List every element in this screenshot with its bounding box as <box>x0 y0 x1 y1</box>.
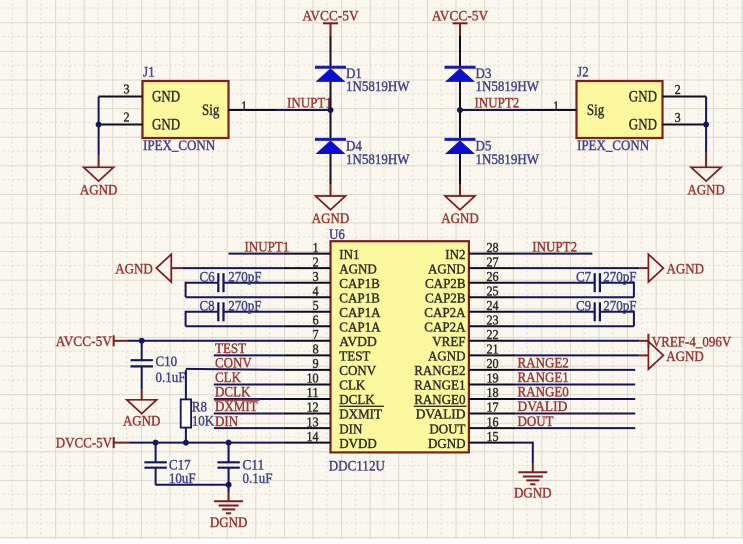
net label RANGE1 <box>518 370 569 386</box>
pin 9 (CONV) of U6 <box>284 357 376 379</box>
pin 2 of J2 <box>663 83 707 98</box>
svg-text:AGND: AGND <box>428 350 466 365</box>
net label RANGE0 <box>518 385 569 401</box>
diode D3 1N5819HW <box>445 67 476 82</box>
wire C8 to U6 pin 6 <box>186 311 284 327</box>
net label DOUT <box>518 414 554 430</box>
pin 11 (DCLK) of U6 <box>284 386 375 408</box>
pin 2 (AGND) of U6 <box>284 255 377 277</box>
net label DVALID <box>518 399 568 415</box>
svg-text:AVCC-5V: AVCC-5V <box>302 9 358 25</box>
power port VREF-4_096V <box>648 334 731 351</box>
wire INUPT1 to U6 pin 1 <box>229 253 284 255</box>
wire U6 pin 15 to DGND corner <box>516 442 533 463</box>
net label TEST <box>215 341 246 357</box>
wire DIN to U6 pin 13 <box>214 427 284 429</box>
wire AVCC-5V to D3 <box>459 36 461 67</box>
svg-text:25: 25 <box>487 284 499 299</box>
capacitor C6 270pF <box>218 273 223 292</box>
svg-text:IN1: IN1 <box>339 248 359 263</box>
svg-text:AGND: AGND <box>441 211 479 227</box>
svg-text:RANGE2: RANGE2 <box>518 356 569 372</box>
junction node at x=330.5 <box>328 107 334 113</box>
pin 10 (CLK) of U6 <box>284 372 366 394</box>
svg-text:AGND: AGND <box>428 262 466 277</box>
wire INUPT2 to J2 pin 1 <box>459 109 530 111</box>
wire C11 to bottom node <box>228 468 230 485</box>
value 0.1uF of C11 <box>243 471 273 487</box>
svg-text:AVDD: AVDD <box>339 335 377 350</box>
svg-text:3: 3 <box>675 111 681 126</box>
svg-text:CAP2A: CAP2A <box>424 306 466 321</box>
value 1N5819HW of D1 <box>346 79 410 95</box>
net label DXMIT <box>214 399 259 415</box>
wire AVCC-5V rail to U6 pin 7 <box>128 340 284 342</box>
ground DGND at U6 pin 15 <box>514 463 552 501</box>
wire C6 to U6 pin 4 <box>186 282 284 298</box>
svg-text:5: 5 <box>313 299 319 314</box>
svg-text:10K: 10K <box>192 413 215 429</box>
pin 5 (CAP1A) of U6 <box>284 299 382 321</box>
power port AGND at U6 pin 2 <box>115 254 171 282</box>
value 1N5819HW of D5 <box>476 152 540 168</box>
label C6 <box>200 270 216 286</box>
pin 3 of J2 <box>663 111 707 126</box>
pin 4 (CAP1B) of U6 <box>284 284 380 306</box>
svg-text:20: 20 <box>487 357 499 372</box>
wire D4 to AGND <box>330 154 332 184</box>
svg-text:Sig: Sig <box>587 102 604 119</box>
ground AGND below D5 <box>441 184 479 227</box>
capacitor C17 10uF <box>144 462 166 467</box>
svg-text:3: 3 <box>313 270 319 285</box>
ground DGND below C11 <box>210 485 248 531</box>
svg-text:18: 18 <box>487 386 499 401</box>
power port AVCC-5V column x=460 <box>432 9 488 36</box>
wire DVALID from U6 pin 17 <box>516 413 635 415</box>
svg-text:0.1uF: 0.1uF <box>156 370 186 386</box>
power port AGND at U6 pin 27 <box>648 254 704 282</box>
wire U6 pin 24 to C9 <box>516 311 595 313</box>
svg-text:AVCC-5V: AVCC-5V <box>56 334 112 350</box>
junction bottom node at C11 <box>226 482 232 488</box>
net label INUPT2 (U6) <box>532 239 577 255</box>
svg-text:DVCC-5V: DVCC-5V <box>56 436 112 452</box>
svg-text:270pF: 270pF <box>228 270 261 286</box>
value 270pF of C9 <box>603 299 636 315</box>
wire C7 to U6 pin 25 <box>516 282 634 298</box>
svg-text:1N5819HW: 1N5819HW <box>346 152 410 168</box>
svg-text:16: 16 <box>487 415 499 430</box>
label D3 <box>476 66 492 82</box>
value 1N5819HW of D4 <box>346 152 410 168</box>
pin 21 (AGND) of U6 <box>428 343 516 365</box>
wire DCLK to U6 pin 11 <box>214 398 284 400</box>
net label INUPT2 (top) <box>475 95 520 111</box>
svg-text:DIN: DIN <box>339 422 362 437</box>
svg-text:CONV: CONV <box>215 356 252 372</box>
value 270pF of C6 <box>228 270 261 286</box>
svg-text:19: 19 <box>487 372 499 387</box>
svg-text:17: 17 <box>487 401 499 416</box>
svg-text:J1: J1 <box>143 65 155 81</box>
label D4 <box>346 139 362 155</box>
svg-text:AGND: AGND <box>80 182 118 198</box>
svg-text:C9: C9 <box>576 299 591 315</box>
wire RANGE0 from U6 pin 18 <box>516 398 635 400</box>
svg-text:C10: C10 <box>156 354 178 370</box>
svg-text:GND: GND <box>152 117 180 134</box>
svg-text:7: 7 <box>313 328 319 343</box>
svg-text:INUPT2: INUPT2 <box>475 95 520 111</box>
svg-text:AGND: AGND <box>667 262 705 278</box>
svg-text:CAP1A: CAP1A <box>339 321 381 336</box>
svg-text:23: 23 <box>487 314 499 329</box>
value 0.1uF of C10 <box>156 370 186 386</box>
svg-text:AGND: AGND <box>123 414 161 430</box>
svg-text:6: 6 <box>313 314 319 329</box>
wire junction to D5 <box>459 110 461 139</box>
svg-text:J2: J2 <box>577 65 589 81</box>
power port AVCC-5V (left rail) <box>56 334 128 350</box>
svg-text:1: 1 <box>313 241 319 256</box>
pin 23 (CAP2A) of U6 <box>424 314 516 336</box>
wire C10 to AGND <box>141 366 143 389</box>
wire U6 pin 26 to C7 <box>516 282 595 284</box>
pin 22 (VREF) of U6 <box>432 328 516 350</box>
wire R8 up to CONV / U6 pin 9 <box>186 369 284 400</box>
pin 24 (CAP2A) of U6 <box>424 299 516 321</box>
svg-text:AGND: AGND <box>115 262 153 278</box>
capacitor C11 0.1uF <box>217 462 239 467</box>
capacitor C10 0.1uF <box>131 360 153 366</box>
svg-text:AGND: AGND <box>339 262 377 277</box>
pin 27 (AGND) of U6 <box>428 255 516 277</box>
wire U6 pin 27 to AGND arrow <box>516 267 649 269</box>
pin 19 (RANGE1) of U6 <box>414 372 516 394</box>
svg-text:1: 1 <box>241 99 247 114</box>
diode D5 1N5819HW <box>445 139 476 154</box>
svg-text:Sig: Sig <box>202 102 219 119</box>
svg-text:DVALID: DVALID <box>416 408 466 423</box>
pin 25 (CAP2B) of U6 <box>425 284 516 306</box>
net label INUPT1 (top) <box>287 95 332 111</box>
wire U6 pin 3 to C6 <box>224 282 284 284</box>
svg-text:1N5819HW: 1N5819HW <box>476 152 540 168</box>
wire DVCC rail down to C17 <box>155 443 157 463</box>
svg-text:26: 26 <box>487 270 499 285</box>
wire junction to D4 <box>330 110 332 139</box>
svg-text:INUPT1: INUPT1 <box>245 239 290 255</box>
wire R8 to DVCC rail <box>185 428 187 443</box>
value 1N5819HW of D3 <box>476 79 540 95</box>
svg-text:CAP2A: CAP2A <box>424 321 466 336</box>
svg-text:DGND: DGND <box>428 437 466 452</box>
svg-text:AGND: AGND <box>687 182 725 198</box>
junction DVCC rail / C17 <box>153 440 159 446</box>
svg-text:2: 2 <box>124 111 130 126</box>
junction at J2 pin 3 <box>703 122 709 128</box>
pin 1 of J2 <box>530 99 577 114</box>
svg-text:8: 8 <box>313 343 319 358</box>
svg-text:CAP2B: CAP2B <box>425 277 466 292</box>
svg-text:INUPT1: INUPT1 <box>287 95 332 111</box>
pin 3 (CAP1B) of U6 <box>284 270 380 292</box>
svg-text:1N5819HW: 1N5819HW <box>476 79 540 95</box>
label C7 <box>576 270 592 286</box>
junction DVCC rail / R8 <box>183 440 189 446</box>
svg-text:RANGE1: RANGE1 <box>414 379 465 394</box>
wire U6 pin 5 to C8 <box>224 311 284 313</box>
connector J2 IPEX_CONN <box>577 65 663 155</box>
pin 18 (RANGE0) of U6 <box>414 386 516 408</box>
svg-text:12: 12 <box>307 401 319 416</box>
svg-text:CAP2B: CAP2B <box>425 291 466 306</box>
wire RANGE2 from U6 pin 20 <box>516 369 635 371</box>
pin 2 of J1 <box>99 111 143 126</box>
svg-text:CAP1A: CAP1A <box>339 306 381 321</box>
svg-text:DGND: DGND <box>514 485 552 501</box>
label C8 <box>200 299 215 315</box>
net label INUPT1 (U6) <box>245 239 290 255</box>
svg-text:0.1uF: 0.1uF <box>243 471 273 487</box>
junction node at x=460 <box>457 107 463 113</box>
wire DVCC-5V rail to U6 pin 14 <box>130 442 284 444</box>
svg-text:CLK: CLK <box>339 379 365 394</box>
wire D1 to junction <box>330 82 332 111</box>
power port DVCC-5V <box>56 436 130 452</box>
svg-text:22: 22 <box>487 328 499 343</box>
diode D1 1N5819HW <box>315 67 346 82</box>
capacitor C8 270pF <box>218 302 223 321</box>
svg-text:DXMIT: DXMIT <box>215 399 258 415</box>
wire U6 pin 22 (VREF) <box>516 340 649 342</box>
wire INUPT2 from U6 pin 28 <box>516 253 593 255</box>
svg-text:27: 27 <box>487 255 499 270</box>
svg-text:GND: GND <box>152 89 180 106</box>
junction at J1 pin 2 <box>96 122 102 128</box>
capacitor C9 270pF <box>595 302 600 321</box>
svg-text:21: 21 <box>487 343 499 358</box>
capacitor C7 270pF <box>595 273 600 292</box>
svg-text:CAP1B: CAP1B <box>339 277 380 292</box>
svg-text:DDC112U: DDC112U <box>329 458 385 474</box>
svg-text:11: 11 <box>307 386 319 401</box>
svg-text:INUPT2: INUPT2 <box>532 239 577 255</box>
svg-text:GND: GND <box>629 117 657 134</box>
ground AGND below C10 <box>123 389 161 429</box>
wire CLK to U6 pin 10 <box>214 384 284 386</box>
svg-text:270pF: 270pF <box>228 299 261 315</box>
IC U6 DDC112U body <box>329 227 469 475</box>
net label RANGE2 <box>518 356 569 372</box>
label D1 <box>346 66 362 82</box>
svg-text:14: 14 <box>307 430 319 445</box>
power port AGND at U6 pin 21 <box>648 342 704 370</box>
wire D3 to junction <box>459 82 461 111</box>
wire DXMIT to U6 pin 12 <box>214 413 284 415</box>
svg-text:AVCC-5V: AVCC-5V <box>432 9 488 25</box>
svg-text:TEST: TEST <box>339 350 371 365</box>
pin 1 (IN1) of U6 <box>284 241 360 263</box>
wire DOUT from U6 pin 16 <box>516 427 635 429</box>
wire DVCC rail down to C11 <box>228 443 230 463</box>
pin 26 (CAP2B) of U6 <box>425 270 516 292</box>
svg-text:CONV: CONV <box>339 364 376 379</box>
svg-text:DGND: DGND <box>210 515 248 531</box>
svg-text:4: 4 <box>313 284 319 299</box>
wire AVCC-5V to D1 <box>330 36 332 67</box>
svg-text:24: 24 <box>487 299 499 314</box>
svg-text:2: 2 <box>313 255 319 270</box>
svg-text:1N5819HW: 1N5819HW <box>346 79 410 95</box>
svg-text:IN2: IN2 <box>445 248 465 263</box>
wire J1 pins 2,3 down to AGND <box>98 97 100 156</box>
pin 7 (AVDD) of U6 <box>284 328 377 350</box>
junction AVCC rail / C10 <box>139 338 145 344</box>
svg-text:DXMIT: DXMIT <box>339 408 382 423</box>
svg-text:AGND: AGND <box>666 349 704 365</box>
label D5 <box>476 139 492 155</box>
svg-text:U6: U6 <box>329 227 345 243</box>
svg-text:DOUT: DOUT <box>518 414 554 430</box>
ground AGND at J1 <box>80 155 118 198</box>
value 10uF of C17 <box>169 471 196 487</box>
pin 3 of J1 <box>99 83 143 98</box>
svg-text:13: 13 <box>307 415 319 430</box>
pin 16 (DOUT) of U6 <box>429 415 515 437</box>
label R8 <box>192 399 207 415</box>
ground AGND below D4 <box>312 184 350 227</box>
pin 15 (DGND) of U6 <box>428 430 516 452</box>
value 10K of R8 <box>192 413 215 429</box>
wire TEST to U6 pin 8 <box>214 354 284 356</box>
pin 28 (IN2) of U6 <box>445 241 516 263</box>
diode D4 1N5819HW <box>315 139 346 154</box>
value 270pF of C7 <box>603 270 636 286</box>
svg-text:AGND: AGND <box>312 211 350 227</box>
svg-text:IPEX_CONN: IPEX_CONN <box>143 138 215 154</box>
value 270pF of C8 <box>228 299 261 315</box>
net label DCLK <box>215 385 251 401</box>
label C9 <box>576 299 591 315</box>
wire C9 to U6 pin 23 <box>516 311 634 327</box>
svg-text:GND: GND <box>629 89 657 106</box>
wire U6 pin 2 to AGND arrow <box>171 267 283 269</box>
svg-text:RANGE2: RANGE2 <box>414 364 465 379</box>
svg-text:DOUT: DOUT <box>429 422 466 437</box>
svg-text:IPEX_CONN: IPEX_CONN <box>577 138 649 154</box>
label C17 <box>169 458 191 474</box>
pin 13 (DIN) of U6 <box>284 415 363 437</box>
svg-text:VREF: VREF <box>432 335 465 350</box>
junction DVCC rail / C11 <box>226 440 232 446</box>
net label CLK <box>215 370 241 386</box>
wire U6 pin 21 to AGND arrow <box>516 354 649 356</box>
wire INUPT1 from J1 pin 1 <box>276 109 332 111</box>
svg-text:DVALID: DVALID <box>518 399 568 415</box>
label C10 <box>156 354 178 370</box>
pin 1 of J1 <box>229 99 276 114</box>
pin 20 (RANGE2) of U6 <box>414 357 516 379</box>
svg-text:28: 28 <box>487 241 499 256</box>
svg-text:9: 9 <box>313 357 319 372</box>
power port AVCC-5V column x=330.5 <box>302 9 358 36</box>
ground AGND at J2 <box>687 153 725 198</box>
pin 14 (DVDD) of U6 <box>284 430 377 452</box>
pin 6 (CAP1A) of U6 <box>284 314 382 336</box>
wire C17 to bottom node <box>156 468 229 485</box>
svg-text:3: 3 <box>124 83 130 98</box>
wire AVCC rail down to C10 <box>141 341 143 360</box>
svg-text:1: 1 <box>553 99 559 114</box>
svg-text:DVDD: DVDD <box>339 437 377 452</box>
wire J2 pins 2,3 down to AGND <box>705 97 707 153</box>
svg-text:CAP1B: CAP1B <box>339 291 380 306</box>
svg-text:15: 15 <box>487 430 499 445</box>
pin 12 (DXMIT) of U6 <box>284 401 384 423</box>
label C11 <box>243 458 265 474</box>
svg-text:C7: C7 <box>576 270 592 286</box>
net label DIN <box>215 414 238 430</box>
svg-text:DIN: DIN <box>215 414 238 430</box>
net label CONV <box>215 356 252 372</box>
pin 8 (TEST) of U6 <box>284 343 371 365</box>
connector J1 IPEX_CONN <box>143 65 229 155</box>
wire RANGE1 from U6 pin 19 <box>516 384 635 386</box>
resistor R8 10K <box>181 399 191 427</box>
svg-text:2: 2 <box>675 83 681 98</box>
pin 17 (DVALID) of U6 <box>414 401 516 423</box>
wire D5 to AGND <box>459 154 461 184</box>
svg-text:10: 10 <box>307 372 319 387</box>
